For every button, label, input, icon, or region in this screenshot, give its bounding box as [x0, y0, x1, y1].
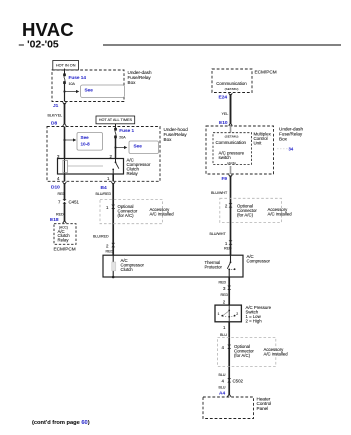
- svg-text:BLU: BLU: [219, 386, 226, 390]
- svg-text:RED: RED: [221, 293, 229, 297]
- svg-text:BLU: BLU: [220, 333, 227, 337]
- connector inline pin1: [111, 205, 115, 209]
- svg-text:(for A/C): (for A/C): [118, 213, 135, 218]
- wire YEL E24 to E10: [230, 94, 232, 124]
- wire BLK/YEL J1 to D8: [64, 103, 66, 124]
- connector chevron A4: [227, 394, 231, 397]
- arrow to See 10-8: [65, 138, 76, 141]
- svg-text:Box: Box: [164, 137, 173, 142]
- wire RED D10 to C451: [64, 183, 66, 200]
- connector C502 inline: [227, 378, 231, 382]
- fuse F14 symbol: [64, 74, 66, 84]
- svg-text:Box: Box: [128, 80, 137, 85]
- svg-text:A/C installed: A/C installed: [268, 211, 293, 216]
- wire stub HOT IN ON to fuse 14: [64, 69, 66, 75]
- label Accessory A/C installed: [264, 347, 289, 357]
- svg-text:switch: switch: [219, 155, 232, 160]
- multiplex control unit inner box: [213, 133, 252, 165]
- wire relay pin1 to B4: [112, 174, 114, 181]
- wire BLU pressure switch down: [228, 322, 230, 395]
- power label HOT IN ON: [53, 61, 79, 70]
- connector inline pin2: [229, 203, 233, 207]
- svg-text:Fuse 1: Fuse 1: [119, 128, 134, 133]
- under-hood fuse/relay box: [47, 127, 160, 182]
- label Accessory A/C installed: [268, 207, 293, 217]
- wire relay pin4 to D10: [64, 174, 66, 181]
- svg-text:B4: B4: [101, 185, 107, 191]
- wire BLU/WHT F9 down: [230, 176, 232, 256]
- svg-text:Fuse 14: Fuse 14: [69, 75, 87, 80]
- label A/C Pressure Switch 1=Low 2=High: [246, 305, 272, 324]
- under-dash fuse/relay box (top-left): [52, 70, 124, 102]
- label Optional Connector (for A/C): [234, 344, 254, 358]
- label A/C Compressor Clutch Relay: [127, 158, 151, 177]
- svg-text:HVAC: HVAC: [22, 19, 74, 40]
- reference dashes and page 34: [277, 146, 294, 151]
- label A/C Compressor: [247, 254, 271, 264]
- See 10-8 reference box: [77, 133, 103, 151]
- wire fuse1 to relay pin 2: [115, 138, 117, 159]
- label Communication (SET/MU): [216, 81, 247, 91]
- wire fuse14 to J1: [64, 84, 66, 102]
- svg-text:RED: RED: [224, 247, 232, 251]
- connector inline pin2: [111, 243, 115, 247]
- svg-text:Clutch: Clutch: [121, 267, 134, 272]
- connector chevron J1: [63, 102, 67, 105]
- connector C451 inline: [63, 199, 67, 203]
- svg-text:A/C installed: A/C installed: [150, 211, 175, 216]
- svg-text:(SET/MU): (SET/MU): [225, 87, 239, 91]
- label Optional Connector (for A/C): [118, 204, 138, 218]
- optional connector box (mid): [100, 200, 163, 224]
- wire D8 to relay pin 3: [64, 127, 66, 159]
- relay switch: [112, 159, 119, 175]
- header rule: [103, 44, 341, 46]
- svg-text:YEL: YEL: [222, 112, 229, 116]
- label (ACC) A/C Clutch Relay: [58, 225, 71, 242]
- wire RED thermal protector down: [228, 277, 230, 305]
- svg-text:– '02-'05: – '02-'05: [19, 40, 59, 51]
- wire E10 into multiplex unit: [230, 126, 232, 133]
- svg-text:BLU/RED: BLU/RED: [93, 235, 109, 239]
- svg-text:(SET/MU): (SET/MU): [225, 134, 239, 138]
- label Under-hood Fuse/Relay Box: [164, 127, 189, 142]
- label (SET/MU) Communication: [216, 134, 247, 145]
- heater control panel box: [203, 397, 254, 419]
- svg-text:ECM/PCM: ECM/PCM: [255, 70, 277, 75]
- svg-text:34: 34: [289, 146, 294, 151]
- connector chevron D8: [63, 124, 67, 127]
- connector inline pin4: [227, 345, 231, 349]
- fuse F1 symbol: [115, 128, 117, 138]
- connector inline pin3: [227, 286, 231, 290]
- svg-text:RED: RED: [106, 249, 114, 253]
- svg-text:E18: E18: [50, 217, 59, 223]
- relay linkage: [67, 165, 103, 167]
- optional connector box (bottom): [218, 337, 276, 366]
- svg-text:C502: C502: [233, 378, 244, 383]
- svg-text:J1: J1: [53, 103, 59, 109]
- thermal protector switch: [227, 255, 235, 277]
- ECM/PCM communication box (top right): [212, 69, 252, 93]
- svg-text:Relay: Relay: [127, 171, 139, 176]
- wire stub HOT AT ALL TIMES to fuse 1: [115, 124, 117, 129]
- power label HOT AT ALL TIMES: [96, 116, 135, 124]
- A/C pressure switch box: [215, 305, 241, 322]
- svg-text:ECM/PCM: ECM/PCM: [54, 247, 76, 252]
- svg-text:F9: F9: [222, 176, 228, 182]
- footer cont'd from page 60: [32, 420, 90, 426]
- svg-text:Relay: Relay: [58, 238, 70, 243]
- label Multiplex Control Unit: [254, 132, 272, 146]
- svg-text:BLK/YEL: BLK/YEL: [48, 114, 63, 118]
- label A/C pressure switch (ACS): [219, 150, 245, 165]
- connector chevron E24: [229, 93, 233, 96]
- connector chevron E18: [63, 221, 67, 224]
- svg-text:BLU: BLU: [219, 373, 226, 377]
- junction on left wire: [63, 139, 65, 141]
- See reference box 2: [129, 141, 159, 154]
- label Thermal Protector: [205, 260, 223, 270]
- svg-text:A4: A4: [219, 391, 225, 397]
- svg-text:HOT IN ON: HOT IN ON: [56, 64, 76, 68]
- wire multiplex to F9: [230, 166, 232, 174]
- arrow to See reference: [65, 90, 79, 93]
- connector chevron E10: [229, 123, 233, 126]
- label Heater Control Panel: [257, 396, 272, 411]
- svg-text:Compressor: Compressor: [247, 259, 271, 264]
- relay coil: [63, 159, 68, 175]
- svg-text:RED: RED: [56, 213, 64, 217]
- svg-text:See: See: [81, 135, 90, 140]
- label Optional Connector (for A/C): [237, 203, 257, 217]
- svg-text:(cont'd from page 60): (cont'd from page 60): [32, 420, 90, 426]
- relay K1 A/C compressor clutch relay box: [58, 159, 124, 175]
- connector chevron D10: [63, 182, 67, 185]
- svg-text:D8: D8: [51, 121, 57, 127]
- label A/C Compressor Clutch: [121, 258, 145, 272]
- svg-text:D10: D10: [51, 185, 60, 191]
- svg-text:HOT AT ALL TIMES: HOT AT ALL TIMES: [99, 118, 133, 122]
- svg-text:E10: E10: [219, 120, 228, 126]
- arrow to See reference 2: [116, 146, 127, 149]
- connector chevron B4: [111, 182, 115, 185]
- svg-text:C451: C451: [69, 199, 80, 204]
- junction on fuse1 wire: [114, 146, 116, 148]
- svg-text:BLU/WHT: BLU/WHT: [211, 191, 228, 195]
- svg-text:(ACS): (ACS): [227, 161, 235, 165]
- svg-text:RED: RED: [219, 281, 227, 285]
- svg-text:Communication: Communication: [216, 140, 247, 145]
- pin labels 1 2 inside pressure switch: [218, 312, 239, 316]
- connector inline pin1: [229, 240, 233, 244]
- svg-text:(for A/C): (for A/C): [237, 213, 254, 218]
- svg-text:Protector: Protector: [205, 265, 223, 270]
- svg-text:10A: 10A: [69, 82, 76, 86]
- wire BLU/RED B4 to optional connector: [112, 183, 114, 255]
- svg-text:BLU/WHT: BLU/WHT: [210, 232, 227, 236]
- svg-text:(for A/C): (for A/C): [234, 353, 251, 358]
- value label Fuse 1 20A: [119, 128, 134, 140]
- svg-text:Communication: Communication: [216, 81, 247, 86]
- ECM/PCM A/C clutch relay driver box: [54, 224, 76, 245]
- label Under-dash Fuse/Relay Box: [279, 126, 303, 141]
- svg-text:20A: 20A: [119, 136, 126, 140]
- See reference box 1: [81, 85, 125, 98]
- svg-text:2 = High: 2 = High: [246, 319, 263, 324]
- connector chevron F9: [229, 175, 233, 178]
- clutch coil wire through box: [112, 255, 114, 277]
- svg-text:Box: Box: [279, 136, 288, 141]
- svg-text:See: See: [85, 88, 94, 93]
- wire RED C451 to E18: [64, 203, 66, 221]
- svg-text:E24: E24: [219, 95, 228, 101]
- clutch coil: [112, 262, 116, 271]
- svg-text:10-8: 10-8: [81, 142, 91, 147]
- svg-text:RED: RED: [58, 192, 66, 196]
- value label Fuse 14 10A: [69, 75, 87, 86]
- svg-text:1: 1: [218, 312, 220, 316]
- svg-text:2: 2: [236, 312, 238, 316]
- under-dash fuse/relay box (right, multiplex): [206, 126, 274, 174]
- label Accessory A/C installed: [150, 207, 175, 217]
- svg-text:See: See: [134, 144, 143, 149]
- junction clutch to case: [112, 276, 115, 279]
- junction on fuse14 wire: [63, 90, 65, 92]
- optional connector box (right): [220, 198, 282, 222]
- svg-text:A/C installed: A/C installed: [264, 351, 289, 356]
- label Under-dash Fuse/Relay Box: [128, 70, 152, 85]
- svg-text:Unit: Unit: [254, 141, 263, 146]
- pressure switch internals: [221, 305, 235, 322]
- svg-text:Panel: Panel: [257, 406, 269, 411]
- svg-text:BLU/RED: BLU/RED: [96, 192, 112, 196]
- A/C compressor assembly box: [103, 255, 243, 277]
